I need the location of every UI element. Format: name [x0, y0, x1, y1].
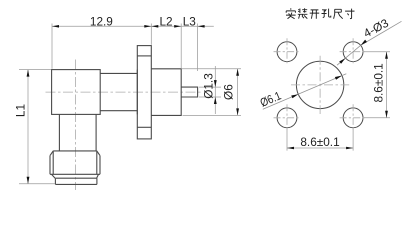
- svg-text:12.9: 12.9: [90, 15, 113, 29]
- svg-text:L1: L1: [14, 104, 28, 117]
- svg-text:L2: L2: [159, 15, 172, 29]
- svg-text:8.6±0.1: 8.6±0.1: [372, 63, 386, 102]
- leader Ø6.1: [258, 74, 346, 110]
- dimension Ø6 (interface body): [182, 69, 241, 116]
- horizontal centerline: [46, 91, 204, 93]
- flange plate: [137, 46, 151, 139]
- corner hole top-left: [277, 42, 297, 62]
- middle cylinder: [100, 70, 137, 115]
- washer section: [55, 178, 97, 184]
- dimension L3: [183, 15, 205, 71]
- svg-text:L3: L3: [183, 15, 197, 29]
- title 安装开孔尺寸 (drawn strokes): [286, 8, 354, 19]
- dimension 8.6±0.1 vertical: [364, 52, 390, 118]
- big circle centerlines: [291, 56, 349, 114]
- leader 4-Ø3: [337, 16, 402, 66]
- 孔: [322, 9, 331, 18]
- connector elbow block: [52, 70, 101, 115]
- svg-text:8.6±0.1: 8.6±0.1: [300, 135, 339, 149]
- neck below block: [59, 114, 96, 150]
- corner hole bottom-left: [277, 108, 297, 128]
- coupling nut: [50, 151, 100, 178]
- svg-text:Ø6: Ø6: [221, 84, 235, 100]
- dimension 8.6±0.1 horizontal: [287, 129, 353, 151]
- vertical centerline: [75, 60, 77, 191]
- dimension L1: [14, 70, 56, 184]
- 尺: [334, 9, 343, 18]
- big hole circle Ø6.1: [296, 61, 343, 108]
- center pin: [181, 87, 197, 97]
- dimension 12.9: [52, 15, 214, 69]
- 安: [286, 8, 296, 19]
- dimension Ø1.3 (pin): [199, 66, 221, 114]
- 装: [298, 8, 308, 18]
- dimension L2: [151, 15, 181, 68]
- interface body cylinder: [151, 69, 181, 116]
- svg-text:Ø1.3: Ø1.3: [201, 73, 215, 99]
- corner hole top-right: [343, 42, 363, 62]
- corner hole bottom-right: [343, 108, 363, 128]
- 开: [310, 10, 320, 19]
- 寸: [345, 9, 354, 19]
